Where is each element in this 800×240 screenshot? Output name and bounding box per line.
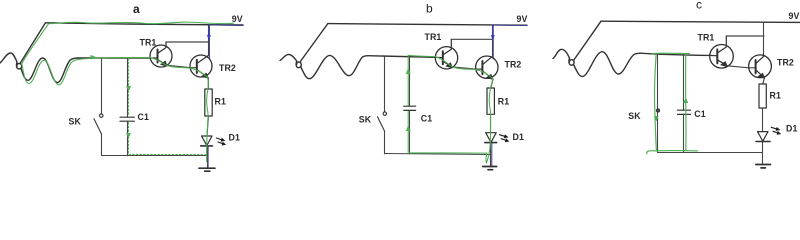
blue current line down collector wire — [208, 25, 210, 58]
skin resistance squiggle — [574, 52, 641, 77]
switch SK lower wire — [101, 134, 103, 156]
wire TR1 emitter to TR2 base — [727, 66, 755, 68]
green dashed: C1 charge lower — [128, 123, 130, 155]
svg-text:TR1: TR1 — [425, 32, 442, 42]
green discharge loop: up C1 branch with arrow — [685, 54, 687, 151]
svg-text:TR2: TR2 — [505, 60, 522, 70]
capacitor C1 lower wire — [127, 122, 129, 156]
switch SK arm (open) — [94, 119, 101, 134]
wire TR1 emitter to TR2 base — [167, 65, 197, 67]
green discharge path: through LED with corner overshoot — [486, 133, 491, 163]
blue current line down collector wire — [492, 25, 494, 59]
capacitor C1 lower wire — [409, 111, 411, 154]
wire base (squiggle to TR1 base) — [641, 53, 710, 55]
switch SK contact dot — [383, 112, 386, 115]
green current path: through TR1 TR2 — [150, 58, 207, 77]
resistor R1 — [759, 84, 766, 108]
wire R1 to D1 — [207, 116, 208, 136]
skin resistance squiggle — [301, 55, 369, 78]
svg-text:R1: R1 — [498, 97, 509, 107]
green dashed: C1 charge upper — [128, 59, 130, 116]
wire R1 to D1 — [490, 114, 492, 132]
switch SK wire (closed) — [657, 54, 659, 152]
svg-text:R1: R1 — [215, 97, 226, 107]
svg-text:SK: SK — [69, 117, 82, 127]
green current path: base wire with arrow — [79, 58, 150, 60]
blue current arrow — [208, 29, 210, 36]
svg-text:TR1: TR1 — [140, 38, 157, 48]
transistor TR1 — [150, 42, 172, 67]
svg-text:TR2: TR2 — [219, 63, 236, 73]
wire TR2 emitter to R1 — [207, 78, 209, 89]
svg-text:9V: 9V — [789, 11, 800, 21]
finger outline (skin squiggle) — [280, 54, 297, 61]
switch SK upper wire — [101, 58, 103, 114]
blue current arrow — [492, 29, 494, 36]
transistor TR2 — [190, 55, 212, 78]
switch SK arm (open) — [378, 117, 385, 132]
wire TR1 collector to rail drop — [726, 35, 764, 37]
wire TR2 emitter to R1 — [763, 78, 765, 84]
green discharge loop: down SK branch with arrow — [655, 54, 657, 151]
resistor R1 — [205, 89, 212, 116]
transistor TR1 — [710, 36, 734, 68]
wire R1 to D1 — [762, 108, 764, 132]
capacitor C1 plates — [678, 109, 691, 111]
finger outline (skin squiggle) — [553, 49, 570, 58]
wire TR1 collector to rail drop — [166, 41, 208, 43]
wire 9V top rail — [601, 21, 800, 22]
green discharge path: through TR1 TR2 — [435, 57, 492, 79]
switch SK upper wire — [384, 57, 386, 112]
battery lead blue overlay on rail — [492, 24, 527, 26]
green discharge loop: top segment — [652, 52, 690, 54]
wire 9V top rail — [328, 24, 527, 26]
wire TR2 emitter to R1 — [491, 79, 493, 88]
capacitor C1 upper wire — [683, 55, 685, 110]
battery lead blue overlay on rail — [208, 24, 243, 27]
wire D1 to ground — [207, 146, 209, 168]
wire TR1 emitter to TR2 base — [452, 67, 482, 69]
green current path: through LED to rail — [206, 136, 208, 162]
green discharge path: up C1 upper branch with arrow — [407, 56, 409, 105]
svg-text:C1: C1 — [694, 109, 705, 119]
svg-text:C1: C1 — [421, 113, 432, 123]
svg-text:c: c — [696, 0, 702, 12]
wire rail to TR2 collector — [492, 25, 494, 56]
svg-text:TR1: TR1 — [698, 33, 715, 43]
wire base (squiggle to TR1 base) — [78, 57, 150, 59]
capacitor C1 plates — [404, 105, 416, 107]
switch SK contact dot — [656, 109, 659, 112]
svg-text:b: b — [426, 2, 433, 16]
svg-text:9V: 9V — [517, 14, 528, 24]
LED D1 — [485, 133, 497, 143]
blue current line after LED — [207, 146, 209, 167]
ground symbol — [756, 165, 771, 168]
green current path: diagonal — [22, 24, 49, 64]
svg-text:D1: D1 — [513, 132, 524, 142]
transistor TR2 — [749, 55, 772, 78]
finger outline (skin squiggle) — [0, 53, 17, 63]
svg-text:SK: SK — [628, 111, 641, 121]
fingertip loop — [569, 58, 574, 65]
ground symbol — [483, 167, 497, 170]
LED D1 — [201, 136, 213, 146]
switch SK contact dot — [100, 114, 103, 117]
LED light arrows — [500, 135, 506, 137]
svg-text:D1: D1 — [229, 133, 240, 143]
LED light arrows — [771, 127, 777, 129]
green discharge path: top wire C1 to TR1 — [408, 55, 435, 56]
wire D1 to ground — [490, 143, 492, 166]
transistor TR1 — [435, 39, 457, 69]
svg-text:D1: D1 — [786, 124, 797, 134]
transistor TR2 — [476, 56, 498, 79]
wire bottom rail — [102, 155, 208, 157]
wire bottom rail — [385, 154, 491, 155]
green current path: squiggle — [22, 59, 79, 85]
capacitor C1 upper wire — [409, 57, 411, 106]
wire base (squiggle to TR1 base) — [368, 56, 435, 58]
green current path: rail — [49, 22, 234, 24]
svg-text:SK: SK — [359, 115, 372, 125]
switch SK lower wire — [384, 132, 386, 154]
green dashed: bottom rail to ground — [129, 153, 206, 155]
capacitor C1 upper wire — [127, 58, 129, 117]
svg-text:C1: C1 — [138, 112, 149, 122]
svg-text:TR2: TR2 — [777, 58, 794, 68]
green discharge path: bottom rail back to C1 — [410, 152, 487, 154]
svg-text:R1: R1 — [770, 91, 781, 101]
skin resistance squiggle — [21, 58, 78, 83]
wire finger to 9V rail (diagonal) — [20, 23, 46, 64]
wire TR1 collector to rail drop — [451, 38, 492, 40]
green discharge path: down through R1 — [489, 78, 492, 133]
LED light arrows — [216, 138, 222, 140]
fingertip loop — [16, 62, 21, 69]
ground symbol — [199, 168, 215, 171]
green current path: TR2 emitter to R1 and through R1 — [207, 77, 209, 136]
LED D1 — [756, 132, 770, 142]
wire D1 to ground — [762, 142, 764, 165]
wire rail to TR2 collector — [763, 22, 765, 56]
capacitor C1 lower wire — [683, 115, 685, 152]
wire finger to 9V rail (diagonal) — [300, 24, 328, 62]
green discharge loop: bottom segment with overshoot — [647, 151, 698, 154]
wire rail to TR2 collector — [208, 25, 210, 55]
wire bottom rail — [658, 152, 763, 154]
svg-text:a: a — [133, 2, 140, 16]
wire finger to 9V rail (diagonal) — [574, 21, 602, 60]
green discharge path: up C1 lower branch with arrow — [407, 112, 409, 153]
fingertip loop — [296, 61, 301, 68]
capacitor C1 plates — [120, 116, 134, 118]
resistor R1 — [487, 88, 494, 114]
wire 9V top rail — [46, 23, 244, 25]
blue current line after LED — [491, 143, 493, 166]
